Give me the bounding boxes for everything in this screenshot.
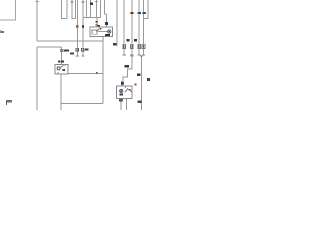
connector colored mark above bottom box: [123, 82, 124, 85]
ground G101 mark lower-left: [6, 100, 12, 105]
connector tick on wire x96.8: [96, 21, 98, 22]
label at left edge (cut off, colored): [0, 31, 4, 33]
bottom box switch arm: [125, 88, 128, 92]
inline connector mark on wire5: [143, 12, 146, 14]
bottom box M2 outline: [117, 86, 133, 99]
switch inner dark mark: [62, 69, 65, 71]
relay pin wire left x96.8: [96, 18, 98, 27]
switch inner pin stub top: [64, 64, 66, 66]
component box upper-left (partial, off-screen): [0, 0, 16, 20]
fuse F2 loop: [72, 0, 76, 19]
wire coil to motor: [97, 31, 108, 33]
bottom box inner pin dark mark: [131, 91, 132, 92]
label B3 above connector row: [126, 39, 129, 41]
value label 1.0 inside relay box: [105, 34, 110, 36]
wire A horizontal: [37, 40, 103, 42]
inline connector mark on wire4: [138, 12, 141, 14]
wire from switch box right to main vertical: [68, 72, 103, 74]
wire left vertical to bottom: [36, 47, 38, 110]
fuse drop x90.6 with label: [90, 0, 92, 18]
tick on wire y73: [96, 72, 97, 73]
fuse drop x96.5 with tick: [95, 0, 98, 18]
label above relay box: [98, 25, 101, 27]
right harness wire 3: [131, 0, 133, 55]
switch box S1 outline: [55, 64, 68, 74]
wire drop to switch box with connector: [60, 47, 62, 64]
label C1 above connector row: [134, 39, 137, 41]
inline connector C101 (orange): [76, 25, 78, 28]
wire drop x77.3 through connector: [76, 0, 78, 56]
connector square on wire x77: [76, 48, 79, 51]
wire B horizontal: [37, 46, 61, 48]
connector square on wire x83: [82, 48, 85, 51]
label right of connector x83: [85, 48, 89, 50]
right harness wire 1: [116, 0, 118, 46]
fuse F1 loop: [62, 0, 68, 19]
terminal bar wire4: [138, 54, 141, 56]
fuse drop x100.3: [99, 0, 101, 18]
terminal bar bottom x77: [76, 55, 79, 57]
switch inner pin stub bottom: [57, 72, 59, 74]
terminal tick top of wire x141.5: [140, 55, 143, 57]
wire into relay box top-right: [106, 14, 108, 27]
switch pivot circle: [57, 67, 60, 70]
wire resuming x141.5 to bottom: [141, 56, 143, 110]
terminal bar wire3: [130, 54, 133, 56]
label at top of wire x90.6: [90, 2, 93, 5]
connector rect on wire4: [138, 44, 141, 48]
tick top of fuse U2: [70, 1, 73, 2]
tick top of wire x82.9: [81, 1, 84, 2]
label left of connector x77: [70, 52, 74, 54]
label right edge: [147, 78, 150, 81]
colored label below bottom box: [119, 99, 123, 101]
relay box K1 outline: [90, 27, 113, 37]
terminal bar bottom x83: [81, 55, 84, 57]
relay arm contact dark mark: [100, 28, 102, 30]
bottom box label under circle: [120, 93, 123, 95]
terminal bar wire2: [123, 54, 126, 56]
right harness wire 4: [138, 0, 140, 55]
wire from switch box bottom: [60, 74, 62, 110]
label left of wire x132 jog: [124, 65, 129, 68]
wire jog top-right: [144, 0, 148, 19]
switch arm diagonal: [60, 65, 64, 68]
relay switch arm: [96, 28, 100, 31]
connector rect on wire3: [131, 44, 134, 48]
bus bar fuse box: [83, 17, 100, 19]
wire from top at x37 with tick: [36, 0, 39, 41]
wire from relay box bottom pin: [102, 37, 104, 104]
label left of wire x141.5 (upper): [137, 73, 141, 76]
wire drop x82.9 through connector: [82, 0, 84, 56]
inline connector mark on wire3 (orange dot): [130, 12, 133, 14]
short fuse stub x104.3: [104, 0, 106, 14]
connector (orange) at relay box pin x96.8: [96, 24, 98, 26]
right harness wire 2: [123, 0, 125, 55]
inline connector C102 (blue): [82, 25, 84, 28]
terminal bar wire5: [142, 54, 145, 56]
label left of wire1 terminal: [113, 43, 116, 45]
wire resuming x132 down to bottom box: [123, 56, 132, 86]
label left of wire x141.5 (lower, colored): [138, 101, 142, 104]
wire bottom horizontal: [61, 103, 103, 105]
wires below bottom box: [121, 99, 127, 110]
relay coil rectangle: [92, 30, 97, 34]
connector square on wire x61: [60, 49, 63, 51]
motor symbol M1 (circle): [108, 30, 111, 33]
pin ticks inside connector rects: [124, 45, 144, 47]
red dot right of bottom box: [135, 84, 137, 86]
bottom box arm dark mark: [128, 89, 130, 91]
right harness wire 5: [143, 0, 145, 55]
label above switch box: [58, 60, 64, 62]
connector rect on wire2: [123, 44, 126, 48]
connector rect on wire5: [142, 44, 145, 48]
bottom box motor circle: [120, 89, 123, 92]
label above bottom box pin: [121, 82, 123, 85]
connector mark on wire x106.5: [105, 22, 108, 25]
bottom box switch pin stub: [124, 86, 126, 88]
fuse drop x86.5: [86, 0, 88, 18]
terminal tick top of resuming wire x132: [130, 55, 133, 57]
label A22 right of wire x61: [63, 49, 69, 51]
